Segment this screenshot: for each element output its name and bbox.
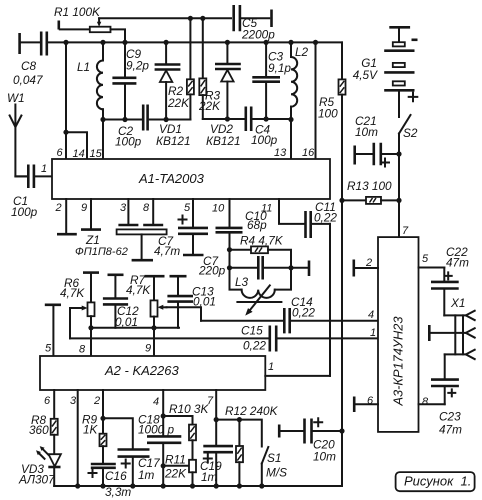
node dot R12 top <box>237 417 242 422</box>
capacitor C13 0,01 <box>167 276 216 328</box>
capacitor C10 68p <box>216 199 268 250</box>
svg-text:0,22: 0,22 <box>292 306 315 320</box>
svg-text:47m: 47m <box>439 423 462 437</box>
capacitor C17 1m <box>118 450 161 487</box>
wire A1 pin2 <box>65 199 67 233</box>
switch S1 M/S <box>262 447 287 486</box>
wire A2 pin3 <box>77 390 79 486</box>
svg-text:4,7K: 4,7K <box>126 283 151 297</box>
switch S2 <box>399 115 418 200</box>
wire A2 pin1 <box>265 375 330 377</box>
node dot R3 top <box>200 16 205 21</box>
svg-text:4,7K: 4,7K <box>60 286 85 300</box>
wire pin16 <box>315 42 317 159</box>
node dot pin7 <box>214 417 219 422</box>
svg-text:1m: 1m <box>201 470 218 484</box>
resistor R3 22K <box>198 18 221 119</box>
svg-text:10m: 10m <box>313 450 336 464</box>
svg-text:10: 10 <box>212 203 225 215</box>
svg-text:L2: L2 <box>295 45 309 59</box>
svg-text:0,01: 0,01 <box>193 295 216 309</box>
svg-text:0,22: 0,22 <box>314 211 337 225</box>
ground stub (A1 pin2) <box>57 233 77 236</box>
node dot VD1/rail <box>164 40 169 45</box>
filter Z1 FP1P8-62 <box>75 225 167 260</box>
svg-text:10m: 10m <box>355 125 378 139</box>
node dot C18/ground rail <box>161 483 166 488</box>
node dot C3/rail <box>264 40 269 45</box>
node dot VD2/rail <box>225 40 230 45</box>
capacitor C23 47m <box>431 354 462 436</box>
svg-text:1: 1 <box>41 163 47 175</box>
capacitor C19 1m <box>200 420 233 486</box>
capacitor C9 9,2p <box>112 42 149 119</box>
svg-text:КВ121: КВ121 <box>206 134 241 148</box>
inductor L1 <box>77 42 103 119</box>
node dot pin4 <box>161 413 166 418</box>
capacitor C14 0,22 <box>201 295 378 333</box>
svg-text:100: 100 <box>318 107 338 121</box>
capacitor C12 0,01 <box>103 275 139 329</box>
svg-text:1: 1 <box>370 327 376 339</box>
svg-text:0,22: 0,22 <box>243 339 266 353</box>
IC A2 KA2263 <box>40 356 265 390</box>
node dot pin14 branch <box>63 130 68 135</box>
svg-text:22K: 22K <box>167 96 190 110</box>
svg-text:R11: R11 <box>165 453 186 467</box>
svg-text:2: 2 <box>55 202 62 214</box>
wire RF tank bottom <box>203 118 291 120</box>
svg-text:4,5V: 4,5V <box>353 68 378 82</box>
resistor R8 360 <box>29 390 58 437</box>
node dot pin6/rail <box>63 40 68 45</box>
capacitor C16 3,3m <box>89 464 132 499</box>
svg-text:3: 3 <box>70 395 77 407</box>
capacitor C4 100p <box>246 107 278 148</box>
svg-text:4,7m: 4,7m <box>154 244 180 258</box>
svg-text:220p: 220p <box>198 264 226 278</box>
resistor R13 100 <box>342 179 399 204</box>
svg-text:R4 4,7K: R4 4,7K <box>240 234 284 248</box>
svg-text:360: 360 <box>29 423 49 437</box>
wire pin15 <box>102 120 104 160</box>
resistor R6 4,7K (trimmer) <box>60 273 99 356</box>
svg-text:8: 8 <box>422 396 429 408</box>
antenna W1 <box>7 91 26 176</box>
figure caption box <box>396 472 475 491</box>
svg-text:16: 16 <box>302 147 315 159</box>
resistor R1 100K (tuning potentiometer) <box>54 5 125 42</box>
ground stub (C5 right) <box>270 10 273 28</box>
node dot S2/C21 <box>396 151 401 156</box>
svg-text:S2: S2 <box>403 126 418 140</box>
ground stub (A1 pin9) <box>81 228 101 231</box>
svg-text:5: 5 <box>422 253 429 265</box>
capacitor C18 1000p <box>138 413 181 487</box>
wire A2 pin7 <box>215 390 217 420</box>
svg-text:W1: W1 <box>7 91 25 105</box>
node dot L1/rail <box>100 40 105 45</box>
resistor R5 100 <box>318 42 346 200</box>
svg-text:0,047: 0,047 <box>13 73 43 87</box>
ground stub (A2 pin5) <box>45 303 61 306</box>
wire to A3 pin7 <box>398 200 400 237</box>
capacitor C8 0,047 <box>13 32 47 88</box>
node dot C9/rail <box>122 40 127 45</box>
node dot L2/rail <box>288 40 293 45</box>
svg-text:1: 1 <box>268 361 274 373</box>
wire ground rail <box>54 431 342 486</box>
node dot C20 <box>339 428 344 433</box>
capacitor C5 2200p <box>234 5 276 42</box>
node dot L2/pin13 <box>288 117 293 122</box>
resistor R2 22K <box>167 18 194 119</box>
svg-text:5: 5 <box>184 202 191 214</box>
svg-text:R12 240K: R12 240K <box>225 404 279 418</box>
node dot C3 bottom <box>264 116 269 121</box>
node dot pin3/ground rail <box>75 483 80 488</box>
wire A3 pin8 <box>419 403 445 405</box>
capacitor C20 10m <box>279 418 342 463</box>
varicap diode VD1 KB121 <box>155 42 191 148</box>
svg-text:1K: 1K <box>83 423 99 437</box>
node dot C10/R4 <box>227 247 232 252</box>
jack X1 <box>429 296 474 359</box>
wire pin6 column <box>65 42 67 159</box>
svg-text:1000 p: 1000 p <box>138 423 175 437</box>
svg-text:КВ121: КВ121 <box>156 134 191 148</box>
wire pin4 to R10 <box>163 416 192 425</box>
node dot C18/R11 <box>161 463 166 468</box>
svg-text:14: 14 <box>73 148 85 160</box>
svg-text:7: 7 <box>402 225 409 237</box>
node dot C17/ground rail <box>130 483 135 488</box>
svg-text:22K: 22K <box>164 467 187 481</box>
svg-text:68p: 68p <box>247 218 267 232</box>
svg-text:S1: S1 <box>267 451 281 465</box>
node dot R13 right <box>396 198 401 203</box>
svg-text:4: 4 <box>153 396 159 408</box>
svg-text:22K: 22K <box>198 99 221 113</box>
IC A3 KR174UN23 <box>378 237 419 432</box>
svg-text:3: 3 <box>120 202 127 214</box>
wire pin7 to S1 <box>216 420 262 447</box>
wire A1 pin3 <box>127 199 129 224</box>
wire pin14 jog <box>66 132 87 159</box>
svg-text:11: 11 <box>261 203 272 215</box>
battery G1 4,5V <box>353 27 418 117</box>
node dot S1/ground rail <box>259 483 264 488</box>
svg-text:R1 100K: R1 100K <box>54 5 101 19</box>
node dot C9 bottom <box>122 117 127 122</box>
node dot tank right <box>288 265 293 270</box>
svg-text:C8: C8 <box>21 59 37 73</box>
svg-text:R13 100: R13 100 <box>347 179 392 193</box>
wire A3 pin5 <box>419 267 445 269</box>
svg-text:5: 5 <box>45 343 52 355</box>
node dot R2 top <box>188 16 193 21</box>
inductor L2 <box>291 42 309 119</box>
svg-text:8: 8 <box>79 344 86 356</box>
resistor R4 4,7K <box>230 234 292 268</box>
svg-text:9,1p: 9,1p <box>268 61 291 75</box>
capacitor C7 4,7m <box>154 199 208 258</box>
svg-text:100p: 100p <box>251 133 278 147</box>
wire supply column down <box>341 200 343 431</box>
svg-text:9,2p: 9,2p <box>126 59 149 73</box>
svg-text:A2 - KA2263: A2 - KA2263 <box>104 363 179 378</box>
wire top rail <box>49 41 342 43</box>
svg-text:15: 15 <box>90 148 103 160</box>
ground stub (A3 pin2) <box>352 260 355 277</box>
resistor R12 240K <box>225 404 279 486</box>
node dot A2 pin9 <box>151 325 156 330</box>
wire oscillator tank bottom <box>103 119 190 121</box>
capacitor C3 9,1p <box>252 42 291 119</box>
wire tuning line <box>99 17 231 19</box>
IC A1 TA2003 <box>52 159 330 199</box>
node dot tank left <box>227 265 232 270</box>
node dot pin2 <box>100 416 105 421</box>
node dot C16/ground rail <box>100 483 105 488</box>
svg-text:А3-КР174УН23: А3-КР174УН23 <box>391 317 406 407</box>
svg-text:R10 3K: R10 3K <box>169 402 209 416</box>
capacitor C2 100p <box>115 105 148 149</box>
wire pin2 to C17 <box>103 418 133 448</box>
capacitor C15 0,22 <box>70 324 378 353</box>
node dot R12/ground rail <box>237 483 242 488</box>
ground stub (A3 pin6) <box>353 397 356 413</box>
svg-text:L1: L1 <box>77 60 90 74</box>
wire C11 to A2 pin1 <box>329 224 331 376</box>
node dot L1/pin15 <box>100 117 105 122</box>
svg-text:100p: 100p <box>115 135 142 149</box>
varicap diode VD2 KB121 <box>206 42 241 148</box>
svg-text:8: 8 <box>143 202 150 214</box>
capacitor C22 47m <box>431 245 469 315</box>
svg-text:C16: C16 <box>105 469 127 483</box>
wire A3 pin6 <box>355 403 378 405</box>
resistor R10 3K <box>169 402 209 460</box>
svg-text:C23: C23 <box>439 410 461 424</box>
svg-text:3,3m: 3,3m <box>105 485 131 499</box>
wire decoder output bus <box>91 327 179 329</box>
svg-text:7: 7 <box>207 395 214 407</box>
wire A3 pin2 <box>355 267 378 269</box>
svg-text:6: 6 <box>57 147 64 159</box>
svg-text:2: 2 <box>93 395 100 407</box>
svg-text:4: 4 <box>368 309 374 321</box>
svg-text:13: 13 <box>274 147 287 159</box>
wire A1 pin8 <box>152 199 154 224</box>
svg-text:Рисунок 1.: Рисунок 1. <box>404 474 471 489</box>
wire pin13 <box>290 120 292 160</box>
capacitor C1 100p <box>11 165 52 220</box>
wire pin1 <box>15 175 26 177</box>
node dot VD1 bottom <box>164 117 169 122</box>
resistor R11 22K <box>164 453 196 487</box>
ground stub (C8 left) <box>18 33 21 54</box>
node dot VD2 bottom <box>225 116 230 121</box>
svg-text:A1-TA2003: A1-TA2003 <box>138 171 205 186</box>
wire A1 pin9 <box>90 199 92 228</box>
wire A2 pin5 <box>52 305 54 356</box>
svg-text:9: 9 <box>145 343 151 355</box>
svg-text:2200p: 2200p <box>241 28 275 42</box>
svg-text:Z1: Z1 <box>85 233 100 247</box>
svg-text:6: 6 <box>44 395 51 407</box>
capacitor C21 10m <box>355 114 399 167</box>
svg-text:C15: C15 <box>241 324 263 338</box>
wire A2 pin4 <box>162 390 164 416</box>
svg-text:АЛ307: АЛ307 <box>18 473 55 487</box>
LED VD3 AL307 <box>18 435 61 487</box>
node dot A2 pin8 <box>88 325 93 330</box>
node dot R11/ground rail <box>190 483 195 488</box>
ground stub (tank) <box>291 267 308 269</box>
inductor L3 (variable) <box>230 268 292 316</box>
wire to R11 <box>163 465 189 467</box>
svg-text:ФП1П8-62: ФП1П8-62 <box>75 246 128 258</box>
capacitor C11 0,22 <box>279 199 337 238</box>
resistor R7 4,7K (trimmer) <box>126 273 201 356</box>
svg-text:1m: 1m <box>138 468 155 482</box>
svg-text:X1: X1 <box>450 296 465 310</box>
node dot pin16/rail <box>313 40 318 45</box>
svg-text:L3: L3 <box>235 275 249 289</box>
svg-text:100p: 100p <box>11 205 38 219</box>
node dot C19/ground rail <box>214 483 219 488</box>
svg-text:47m: 47m <box>446 256 469 270</box>
capacitor C7 220p <box>198 250 291 280</box>
resistor R9 1K <box>82 413 107 464</box>
node dot R13 left <box>339 198 344 203</box>
wire A2 pin2 <box>102 390 104 418</box>
svg-text:9: 9 <box>81 202 87 214</box>
svg-text:M/S: M/S <box>266 466 287 480</box>
